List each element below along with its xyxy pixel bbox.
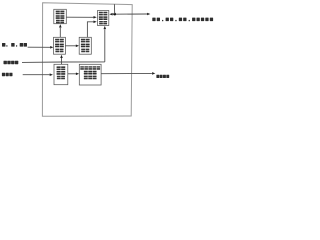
label text box E line1 火灾	[57, 66, 66, 70]
wire: box C up to box A arrow	[59, 28, 61, 38]
unit box D (metering processing unit, mid-right)	[79, 37, 91, 54]
label text box F line3 询单元	[84, 76, 97, 80]
wire: box C to box D arrow	[65, 45, 76, 47]
wire: sensor input arrow into box E	[23, 74, 50, 76]
label text box D line3 单元	[81, 49, 89, 53]
unit box F (touch-screen information query/display unit, bottom-middle)	[79, 64, 101, 85]
label text box A line3 单元	[56, 20, 64, 24]
input label 用户信息	[4, 61, 19, 64]
wire: riser up into box B bottom	[104, 29, 106, 62]
label text box D line2 处理	[81, 44, 90, 48]
wire: box A to box B arrow	[66, 16, 93, 18]
wire: branch up into box C bottom	[61, 58, 63, 62]
wire: branch down into box E top	[61, 62, 63, 64]
unit box C (signal acquisition unit, mid-left)	[54, 37, 66, 54]
label text box B line3 单元	[99, 21, 107, 24]
label text box F line2 信息查	[84, 71, 97, 75]
unit box E (fire alarm unit, bottom-left)	[54, 64, 68, 84]
label text box B line2 传输	[99, 16, 108, 20]
system boundary box	[42, 3, 132, 117]
label text box E line2 报警	[57, 71, 66, 75]
wire: user info line into system	[22, 61, 105, 64]
wire: utilities input arrow into box C	[28, 46, 51, 48]
label text box A line2 处理	[56, 15, 65, 19]
wire: box B bidirectional external link	[113, 13, 148, 15]
junction node on external link	[113, 13, 116, 16]
wire: box E to box F arrow	[68, 73, 76, 75]
output label 用户、水务、电力、燃气部门等	[152, 18, 213, 22]
label text box E line3 单元	[57, 76, 65, 80]
input label 水、电、燃气	[2, 43, 27, 47]
wire: stub from junction to boundary top edge	[113, 4, 115, 14]
output label 收费部门	[156, 75, 169, 78]
label text box D line1 计量	[81, 39, 90, 43]
wire: box F output to fee department	[101, 72, 152, 74]
label text box C line2 采集	[55, 44, 64, 48]
input label 传感器	[2, 73, 13, 76]
wire: box D elbow up to box B arrow	[87, 22, 93, 38]
unit box B (communication unit, top-right)	[98, 11, 109, 26]
label text box F line1 触摸显示屏	[80, 66, 100, 70]
label text box B line1 通信	[99, 12, 108, 16]
label text box A line1 数据	[56, 11, 65, 15]
label text box C line1 信号	[55, 39, 64, 43]
unit box A (data processing unit, top-left)	[54, 9, 67, 23]
label text box C line3 单元	[55, 49, 63, 53]
